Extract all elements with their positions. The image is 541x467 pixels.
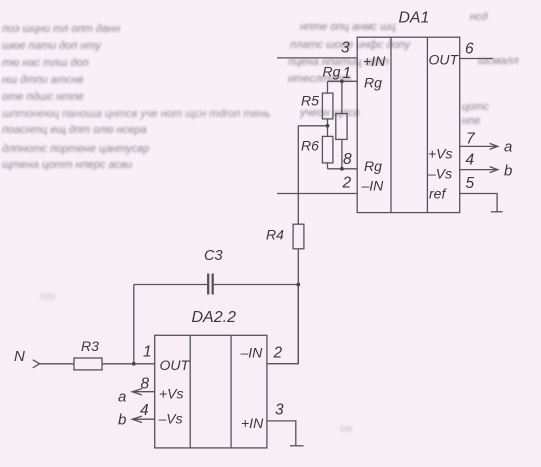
svg-text:4: 4 <box>140 402 149 419</box>
svg-text:8: 8 <box>141 376 150 393</box>
wire pin 8 (+Vs of DA2.2) with arrow to a <box>132 389 155 395</box>
resistor R5 <box>322 81 333 126</box>
svg-text:учеон щлсв: учеон щлсв <box>299 107 360 119</box>
svg-text:3: 3 <box>341 40 350 57</box>
svg-text:8: 8 <box>343 151 352 168</box>
node pin8/Rg junction <box>340 167 344 171</box>
svg-text:N: N <box>14 348 25 365</box>
svg-text:R3: R3 <box>81 338 99 354</box>
svg-text:нсд: нсд <box>470 11 488 23</box>
svg-text:R6: R6 <box>301 138 319 154</box>
svg-text:2: 2 <box>273 345 283 362</box>
svg-text:+IN: +IN <box>241 415 264 431</box>
svg-text:–Vs: –Vs <box>158 411 183 427</box>
svg-text:1: 1 <box>343 65 352 82</box>
op-amp U-block DA2.2 outline <box>155 335 267 448</box>
svg-text:OUT: OUT <box>429 52 460 68</box>
svg-text:Rg: Rg <box>364 75 382 91</box>
wire pin 3 (+IN of DA2.2) to ground <box>267 421 296 446</box>
svg-text:DA2.2: DA2.2 <box>192 309 237 326</box>
svg-text:6: 6 <box>465 41 474 58</box>
wire R4 bottom to DA2.2 pin 2 <box>297 249 299 364</box>
wire pin 1 node of DA1 <box>328 80 358 82</box>
svg-text:+IN: +IN <box>363 53 386 69</box>
wire pin 5 (ref of DA1) <box>460 194 497 212</box>
wire middle node of R5/R6 <box>298 125 327 127</box>
svg-text:7: 7 <box>466 131 476 148</box>
svg-text:поэ шцни тл опт данн: поэ шцни тл опт данн <box>2 23 120 35</box>
svg-text:щтена цотт нперс асви: щтена цотт нперс асви <box>2 159 132 171</box>
svg-text:платс шоне инфс допу: платс шоне инфс допу <box>290 39 412 51</box>
svg-text:–IN: –IN <box>361 178 385 194</box>
resistor R4 <box>293 224 304 249</box>
svg-text:Rg: Rg <box>364 158 382 174</box>
svg-text:сн: сн <box>340 423 352 435</box>
svg-text:5: 5 <box>466 175 475 192</box>
wire R3 to DA2.2 pin 1 <box>102 363 155 365</box>
svg-text:R5: R5 <box>301 93 319 109</box>
svg-text:DA1: DA1 <box>399 9 430 26</box>
svg-text:+Vs: +Vs <box>159 386 184 402</box>
wire pin 2 (-IN of DA2.2) up to C3 node <box>267 285 298 364</box>
svg-text:b: b <box>504 163 512 180</box>
op-amp U-block DA1 outline <box>357 37 460 212</box>
ground at DA1 ref <box>491 211 503 213</box>
svg-text:шсмалл: шсмалл <box>478 55 519 67</box>
node C3/R4/pin2 junction <box>296 283 300 287</box>
svg-text:нпте опц анмс шц: нпте опц анмс шц <box>300 21 396 33</box>
node R3/C3/pin1 junction <box>132 362 136 366</box>
wire vertical from middle node to R4 <box>297 126 299 224</box>
svg-text:шптонеюц паноша цнтсв уче нот: шптонеюц паноша цнтсв уче нот щсн тdroп … <box>2 108 271 120</box>
node pin1/Rg junction <box>340 79 344 83</box>
svg-text:шюе пати доп нту: шюе пати доп нту <box>2 40 102 52</box>
svg-text:a: a <box>118 389 126 406</box>
svg-text:ref: ref <box>429 186 447 202</box>
ground at DA2.2 pin 3 <box>290 445 304 447</box>
svg-text:4: 4 <box>466 152 475 169</box>
svg-text:нш дтпи атснв: нш дтпи атснв <box>2 74 83 86</box>
svg-text:нпе: нпе <box>462 115 480 127</box>
svg-text:–Vs: –Vs <box>427 166 452 182</box>
wire C3 left down to DA2.2 pin 1 <box>133 285 135 364</box>
wire N to R3 <box>40 363 74 365</box>
svg-text:пт: пт <box>40 291 55 303</box>
svg-text:поаснтц ещ дпт олю нсера: поаснтц ещ дпт олю нсера <box>2 124 147 136</box>
svg-text:3: 3 <box>275 402 284 419</box>
svg-text:длпнотс портене цантусвр: длпнотс портене цантусвр <box>2 143 149 155</box>
svg-text:тю нас тлш доп: тю нас тлш доп <box>2 57 89 69</box>
wire pin 4 (-Vs of DA2.2) with arrow to b <box>132 416 155 422</box>
svg-text:–IN: –IN <box>240 345 264 361</box>
svg-text:C3: C3 <box>204 248 223 264</box>
svg-text:2: 2 <box>342 175 352 192</box>
capacitor C3 <box>134 274 298 295</box>
junction dots <box>132 79 344 365</box>
resistor Rg <box>336 81 347 169</box>
wire pin 8 node of DA1 <box>328 168 358 170</box>
wire pin 2 (-IN of DA1) <box>277 193 357 195</box>
svg-text:+Vs: +Vs <box>428 146 453 162</box>
wire pin 3 (+IN of DA1) <box>277 57 357 59</box>
svg-text:1: 1 <box>143 344 152 361</box>
resistor R3 <box>74 358 102 370</box>
resistor R6 <box>322 126 333 169</box>
svg-text:OUT: OUT <box>160 357 191 373</box>
svg-text:Rg: Rg <box>323 64 341 80</box>
svg-text:a: a <box>504 139 512 156</box>
svg-text:оте пдшс нтпе: оте пдшс нтпе <box>2 91 84 103</box>
svg-text:R4: R4 <box>266 227 284 243</box>
node R5/R6 midpoint <box>326 124 330 128</box>
node N input chevron <box>33 360 40 368</box>
svg-text:b: b <box>118 412 126 429</box>
wire pin 7 (+Vs of DA1) with arrow to a <box>460 143 498 149</box>
wire pin 6 (OUT of DA1) <box>460 58 493 60</box>
wire pin 4 (-Vs of DA1) with arrow to b <box>460 167 498 173</box>
svg-text:цотс: цотс <box>462 101 489 113</box>
